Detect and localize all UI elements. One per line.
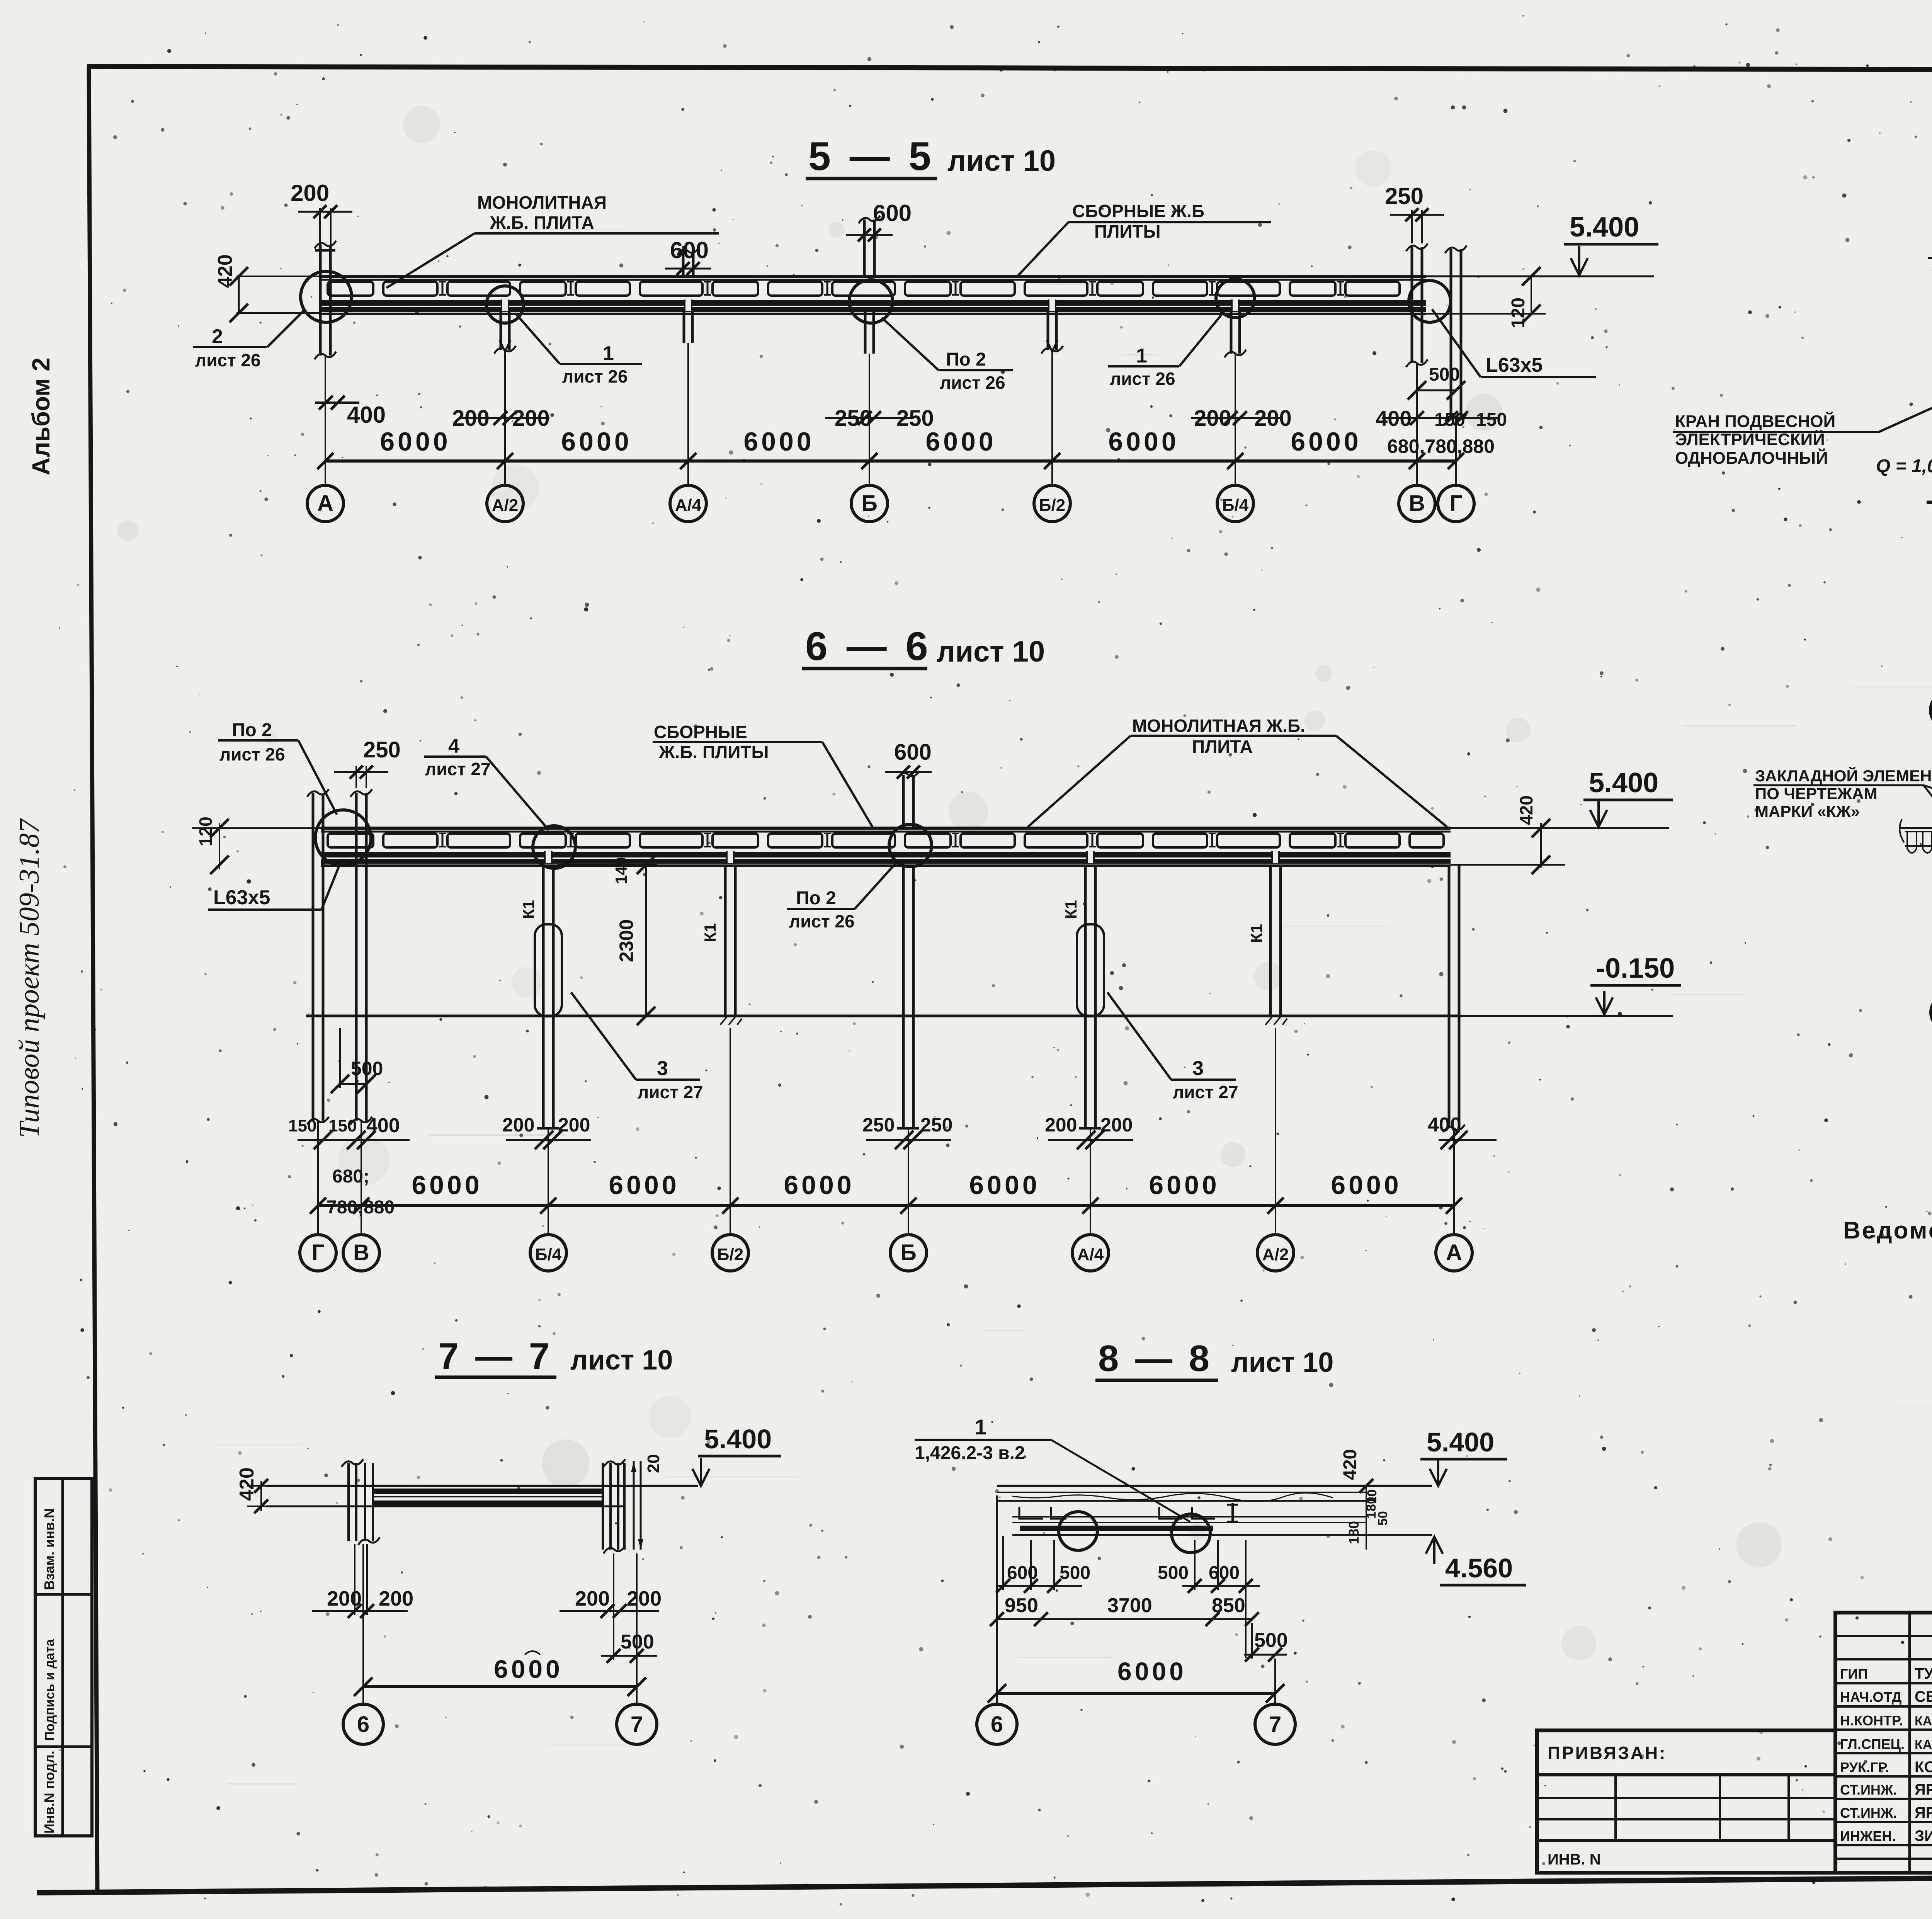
- svg-text:200: 200: [1045, 1114, 1077, 1136]
- section 6-6 column B/2 with base plate: [719, 865, 742, 1025]
- svg-text:6000: 6000: [380, 427, 451, 456]
- section 6-6 axis bubbles G V B/4 B/2 B A/4 A/2 A: [300, 1235, 1472, 1271]
- svg-text:лист 26: лист 26: [195, 350, 261, 370]
- svg-text:6000: 6000: [412, 1170, 482, 1200]
- section 5-5 lower dims 400 / 200 200 / 250 250 / 200 200 / 400 150 150: [315, 396, 1507, 431]
- svg-text:3: 3: [1192, 1057, 1204, 1080]
- section 6-6 leader Sbornye ZhB plity: [653, 722, 872, 827]
- svg-text:Взам. инв.N: Взам. инв.N: [41, 1508, 57, 1590]
- svg-text:СБОРНЫЕ Ж.Б: СБОРНЫЕ Ж.Б: [1072, 201, 1204, 221]
- svg-text:1: 1: [975, 1415, 986, 1439]
- svg-text:7: 7: [631, 1712, 643, 1737]
- section 5-5 hanger B/4: [1225, 312, 1246, 357]
- section 7-7 elevation 5.400: [692, 1424, 781, 1486]
- svg-text:150: 150: [288, 1116, 316, 1135]
- svg-text:СТ.ИНЖ.: СТ.ИНЖ.: [1840, 1782, 1897, 1798]
- svg-text:120: 120: [196, 817, 216, 846]
- svg-text:6000: 6000: [609, 1170, 679, 1200]
- section 8-8 dims 600 500 500 600: [996, 1536, 1260, 1658]
- svg-text:6000: 6000: [743, 427, 814, 456]
- section 6-6 callout 3 list 27 at B/4: [571, 992, 703, 1102]
- svg-text:8 — 8: 8 — 8: [1098, 1338, 1213, 1379]
- svg-text:1: 1: [603, 342, 614, 365]
- svg-text:КОРСУНСКИЙ: КОРСУНСКИЙ: [1915, 1758, 1932, 1776]
- svg-text:А: А: [317, 491, 333, 516]
- svg-text:180: 180: [1346, 1521, 1362, 1544]
- svg-text:200: 200: [327, 1587, 362, 1610]
- svg-text:НАЧ.ОТД: НАЧ.ОТД: [1840, 1689, 1901, 1705]
- svg-text:По 2: По 2: [796, 888, 836, 908]
- svg-text:ГИП: ГИП: [1840, 1666, 1868, 1682]
- svg-text:КАПИТУЛЬСКИЙ: КАПИТУЛЬСКИЙ: [1915, 1737, 1932, 1752]
- svg-text:3: 3: [657, 1057, 668, 1080]
- svg-text:Н.КОНТР.: Н.КОНТР.: [1840, 1713, 1903, 1728]
- section 5-5 leader Sbornye ZhB plity: [1017, 201, 1271, 276]
- svg-text:МОНОЛИТНАЯ Ж.Б.: МОНОЛИТНАЯ Ж.Б.: [1132, 716, 1305, 736]
- svg-text:6000: 6000: [1291, 427, 1361, 456]
- svg-text:6000: 6000: [1108, 427, 1179, 456]
- section 8-8 elevation 5.400: [1420, 1427, 1507, 1486]
- section 6-6 lower dims 150 150 400 / 200 200 / 250 250 / 200 200 / 400: [288, 1114, 1497, 1149]
- section 10-10 slab with ribs: [1900, 819, 1932, 853]
- section 8-8 title: [1095, 1338, 1333, 1380]
- svg-text:150: 150: [1476, 410, 1507, 430]
- svg-text:200: 200: [291, 180, 329, 206]
- svg-text:ИНВ. N: ИНВ. N: [1548, 1851, 1601, 1868]
- section 5-5 dim 500 between V and G: [1408, 364, 1465, 400]
- section 7-7 dim 500: [601, 1553, 657, 1663]
- section 6-6 dim 500: [331, 1028, 383, 1093]
- section 6-6 columns G and V: [307, 789, 372, 1125]
- svg-text:6000: 6000: [494, 1655, 563, 1683]
- section 5-5 callout 1 list 26 at A/2: [516, 314, 642, 386]
- section 8-8 hanger brackets: [1019, 1503, 1238, 1523]
- svg-text:По 2: По 2: [232, 720, 272, 740]
- svg-text:140: 140: [612, 857, 630, 884]
- svg-text:950: 950: [1005, 1594, 1038, 1617]
- section 7-7 dim 420 (rotated): [236, 1467, 268, 1513]
- section 5-5 column G: [1445, 245, 1467, 421]
- svg-text:6000: 6000: [784, 1170, 854, 1200]
- section 5-5 dim 120 right (rotated): [1426, 267, 1546, 328]
- svg-text:420: 420: [236, 1467, 258, 1501]
- svg-text:6000: 6000: [561, 427, 632, 456]
- section 5-5 title: [806, 134, 1056, 179]
- svg-text:420: 420: [1516, 795, 1536, 825]
- section 8-8 joint circles: [1059, 1512, 1210, 1553]
- svg-text:L63x5: L63x5: [213, 886, 270, 909]
- section 8-8 axis lines and bubbles 6 7: [977, 1495, 1295, 1744]
- svg-text:6000: 6000: [925, 427, 996, 456]
- svg-text:лист 27: лист 27: [425, 759, 491, 779]
- svg-text:250: 250: [1385, 183, 1423, 209]
- svg-text:МАРКИ «КЖ»: МАРКИ «КЖ»: [1755, 802, 1860, 820]
- svg-text:В: В: [353, 1240, 369, 1265]
- section 7-7 axis lines and bubbles 6 7: [343, 1544, 657, 1744]
- svg-text:А/4: А/4: [1077, 1245, 1104, 1264]
- svg-text:2: 2: [212, 325, 223, 348]
- svg-text:А/2: А/2: [1262, 1245, 1289, 1264]
- title block: privyazan table: [1537, 1730, 1835, 1873]
- svg-text:5 — 5: 5 — 5: [808, 134, 935, 179]
- section 6-6 callout 3 list 27 at A/4: [1107, 992, 1238, 1102]
- section 6-6 dim 250 above V: [334, 737, 401, 788]
- section 6-6 slab band with monorail beam: [192, 828, 1451, 866]
- section 6-6 elevation 5.400: [1451, 767, 1673, 828]
- svg-text:4.560: 4.560: [1445, 1553, 1513, 1583]
- svg-text:лист 26: лист 26: [1110, 369, 1175, 389]
- svg-text:ПЛИТЫ: ПЛИТЫ: [1094, 221, 1161, 242]
- svg-text:6000: 6000: [1149, 1170, 1219, 1200]
- section 5-5 dim 420 left (rotated): [214, 254, 321, 322]
- section 6-6 joint circles: [315, 810, 932, 868]
- section 5-5 post A/4 with 600 dim: [665, 237, 711, 343]
- section 5-5 axis bubbles A A/2 A/4 B B/2 B/4 V G: [307, 485, 1474, 522]
- svg-text:600: 600: [670, 237, 709, 263]
- svg-text:200: 200: [575, 1587, 610, 1610]
- section 5-5 hanger A/2: [494, 312, 516, 354]
- svg-text:500: 500: [1429, 364, 1460, 385]
- section 7-7 dims 200 200 left: [312, 1544, 413, 1618]
- section 8-8 monorail beam (dark): [1012, 1517, 1432, 1535]
- svg-text:СБОРНЫЕ: СБОРНЫЕ: [654, 722, 747, 742]
- svg-text:СТ.ИНЖ.: СТ.ИНЖ.: [1840, 1805, 1897, 1821]
- svg-text:Б/2: Б/2: [1039, 496, 1065, 515]
- svg-text:120: 120: [1508, 298, 1529, 328]
- svg-text:680,780,880: 680,780,880: [1387, 436, 1495, 457]
- section 9-9 left column axis 6: [1928, 253, 1932, 502]
- svg-text:ГЛ.СПЕЦ.: ГЛ.СПЕЦ.: [1840, 1736, 1905, 1752]
- svg-text:500: 500: [1060, 1563, 1090, 1583]
- svg-text:500: 500: [1158, 1563, 1189, 1583]
- svg-text:ОДНОБАЛОЧНЫЙ: ОДНОБАЛОЧНЫЙ: [1675, 448, 1828, 468]
- section 6-6 column A: [1443, 865, 1465, 1132]
- svg-text:лист 10: лист 10: [570, 1345, 673, 1376]
- svg-text:5.400: 5.400: [704, 1424, 772, 1454]
- section 6-6 axis lines to bubbles: [318, 1028, 1454, 1235]
- svg-text:ЯРЦЕВА: ЯРЦЕВА: [1915, 1804, 1932, 1821]
- section 5-5 callout angle L63x5: [1432, 309, 1596, 377]
- svg-text:Г: Г: [1450, 491, 1463, 516]
- svg-text:420: 420: [1340, 1449, 1361, 1480]
- section 6-6 main dimension row 6000 x6: [310, 1166, 1462, 1218]
- svg-text:КРАН ПОДВЕСНОЙ: КРАН ПОДВЕСНОЙ: [1675, 411, 1835, 431]
- section 5-5 joint detail circles: [301, 271, 1451, 323]
- svg-text:ПО ЧЕРТЕЖАМ: ПО ЧЕРТЕЖАМ: [1755, 784, 1877, 803]
- svg-text:КАПИТУЛЬСКИЙ: КАПИТУЛЬСКИЙ: [1915, 1713, 1932, 1728]
- section 9-9 crane label leader: [1673, 333, 1932, 476]
- section 8-8 dim 6000: [988, 1657, 1284, 1703]
- svg-text:ЗАКЛАДНОЙ ЭЛЕМЕНТ: ЗАКЛАДНОЙ ЭЛЕМЕНТ: [1755, 766, 1932, 785]
- svg-text:Б/2: Б/2: [717, 1245, 743, 1264]
- svg-text:К1: К1: [1247, 924, 1265, 943]
- caption Album 2 (rotated): [27, 357, 55, 475]
- svg-text:4: 4: [448, 735, 459, 757]
- section 6-6 leader Monolitnaya ZhB plita: [1028, 716, 1447, 827]
- section 5-5 post B with 600 dim: [846, 200, 912, 354]
- svg-text:РУК.ГР.: РУК.ГР.: [1840, 1759, 1889, 1775]
- section 6-6 column A/4 with pit: [1077, 865, 1104, 1128]
- svg-text:ЯРЦЕВА: ЯРЦЕВА: [1915, 1781, 1932, 1798]
- section 8-8 dim 500: [1244, 1623, 1288, 1662]
- svg-text:ЗИНЧЕНКО: ЗИНЧЕНКО: [1915, 1827, 1932, 1844]
- section 5-5 axis lines down to bubbles: [325, 343, 1456, 486]
- svg-text:200: 200: [1100, 1114, 1133, 1136]
- svg-text:ПРИВЯЗАН:: ПРИВЯЗАН:: [1548, 1743, 1667, 1763]
- svg-text:Б: Б: [861, 491, 878, 516]
- section 5-5 callout Po 2 list 26 at B: [882, 318, 1013, 393]
- section 5-5 leader Monolitnaya ZhB plita: [386, 192, 719, 288]
- svg-text:150: 150: [328, 1116, 357, 1135]
- svg-text:лист 26: лист 26: [940, 373, 1005, 393]
- caption Tipovoy proekt 509-31.87 (rotated script): [14, 818, 45, 1138]
- svg-text:К1: К1: [1062, 900, 1080, 919]
- section 7-7 dims 200 200 right: [560, 1587, 662, 1618]
- section 5-5 slab band with monorail beam: [321, 276, 1426, 314]
- svg-text:L63x5: L63x5: [1486, 354, 1543, 376]
- svg-text:Q = 1,0тс: Q = 1,0тс: [1876, 456, 1932, 476]
- svg-text:600: 600: [873, 200, 912, 226]
- section 7-7 title: [435, 1335, 673, 1377]
- section 6-6 dim 120 left (rotated): [196, 817, 229, 874]
- section 8-8 elevation 4.560: [1426, 1537, 1526, 1585]
- section 6-6 K1 labels (rotated): [519, 900, 1265, 943]
- svg-text:лист 27: лист 27: [1173, 1082, 1238, 1102]
- section 5-5 dim 250 above column V: [1385, 183, 1444, 243]
- section 5-5 dim 200 above column A: [291, 180, 352, 270]
- section 5-5 elevation 5.400: [1426, 212, 1658, 276]
- svg-text:20: 20: [644, 1454, 663, 1473]
- svg-text:200: 200: [379, 1587, 413, 1610]
- section 6-6 ground line: [306, 1015, 1461, 1017]
- svg-text:6000: 6000: [1117, 1657, 1187, 1686]
- section 5-5 column V: [1406, 243, 1428, 367]
- section 6-6 leader Po 2 list 26 mid: [787, 863, 896, 931]
- section 8-8 slab lines: [997, 1486, 1432, 1502]
- section 6-6 elevation -0.150: [1461, 953, 1681, 1016]
- svg-text:6000: 6000: [969, 1170, 1040, 1200]
- svg-text:Типовой проект 509-31.87: Типовой проект 509-31.87: [14, 818, 45, 1138]
- svg-text:А: А: [1446, 1240, 1462, 1265]
- svg-text:5.400: 5.400: [1589, 767, 1658, 798]
- svg-text:400: 400: [347, 402, 386, 428]
- section 6-6 dim 140 (rotated): [612, 857, 630, 884]
- svg-text:К1: К1: [519, 900, 537, 919]
- svg-text:250: 250: [862, 1114, 895, 1136]
- svg-text:6: 6: [357, 1712, 369, 1737]
- svg-text:ПЛИТА: ПЛИТА: [1192, 737, 1253, 757]
- svg-text:1,426.2-3 в.2: 1,426.2-3 в.2: [915, 1443, 1025, 1463]
- svg-text:600: 600: [894, 740, 932, 765]
- svg-text:-0.150: -0.150: [1596, 953, 1675, 984]
- svg-text:50: 50: [1376, 1511, 1390, 1526]
- svg-text:Б: Б: [900, 1240, 917, 1265]
- svg-text:200: 200: [558, 1114, 590, 1136]
- section 7-7 dim 6000: [354, 1651, 646, 1696]
- section 9-9 ground line: [1927, 501, 1932, 504]
- svg-text:500: 500: [351, 1058, 383, 1079]
- bottom-left stamp table: [35, 1478, 92, 1836]
- svg-text:Инв.N подл.: Инв.N подл.: [41, 1751, 57, 1834]
- svg-text:К1: К1: [701, 923, 719, 942]
- section 8-8 callout 1 / 1,426.2-3 v.2: [915, 1415, 1190, 1522]
- section 6-6 leader 4 list 27: [424, 735, 549, 830]
- svg-text:По 2: По 2: [946, 349, 986, 370]
- svg-text:ТУРИНСКИЙ: ТУРИНСКИЙ: [1915, 1664, 1932, 1682]
- svg-text:лист 26: лист 26: [789, 911, 855, 931]
- svg-text:лист 10: лист 10: [937, 635, 1045, 668]
- svg-text:7 — 7: 7 — 7: [438, 1335, 553, 1377]
- svg-text:2300: 2300: [616, 919, 637, 962]
- svg-text:лист 26: лист 26: [219, 744, 285, 764]
- svg-text:5.400: 5.400: [1427, 1427, 1494, 1457]
- svg-text:250: 250: [920, 1114, 952, 1136]
- svg-text:200: 200: [502, 1114, 534, 1136]
- svg-text:лист 10: лист 10: [947, 145, 1056, 177]
- svg-text:Б/4: Б/4: [535, 1245, 562, 1264]
- svg-text:5.400: 5.400: [1570, 212, 1639, 243]
- section 10-10 axis bubbles A/2 A/4: [1931, 977, 1932, 1030]
- svg-text:Альбом 2: Альбом 2: [27, 357, 55, 475]
- section 6-6 leader L63x5: [208, 864, 340, 910]
- section 7-7 slab and monorail beams: [266, 1486, 698, 1506]
- svg-text:Ведомость элементов смотрите: Ведомость элементов смотрите лист 10.: [1843, 1217, 1932, 1244]
- svg-text:А/4: А/4: [675, 496, 702, 515]
- section 7-7 dim 20 (rotated): [644, 1454, 663, 1473]
- svg-text:6: 6: [991, 1712, 1003, 1737]
- note Vedomost elementov smotrite list 10: [1843, 1217, 1932, 1244]
- section 5-5 column A: [315, 241, 336, 359]
- section 7-7 column axis 6: [342, 1459, 380, 1545]
- section 5-5 callout 1 list 26 at B/4: [1108, 311, 1224, 389]
- section 7-7 column axis 7: [603, 1459, 643, 1553]
- svg-text:6 — 6: 6 — 6: [805, 624, 932, 669]
- svg-text:Подпись и дата: Подпись и дата: [43, 1638, 57, 1741]
- section 6-6 column A/2 with base plate: [1264, 865, 1287, 1025]
- section 5-5 hanger B/2: [1041, 312, 1063, 354]
- section 6-6 top leader Po 2 list 26: [218, 720, 337, 815]
- svg-text:1: 1: [1136, 345, 1147, 367]
- section 6-6 title: [802, 624, 1045, 669]
- section 10-10 embedded element label: [1753, 766, 1932, 869]
- svg-text:МОНОЛИТНАЯ: МОНОЛИТНАЯ: [477, 192, 607, 213]
- svg-text:лист 26: лист 26: [562, 366, 628, 386]
- svg-text:6000: 6000: [1331, 1170, 1401, 1200]
- svg-text:В: В: [1409, 491, 1425, 516]
- svg-text:680;: 680;: [332, 1166, 369, 1187]
- title block: signatures table: [1835, 1613, 1932, 1873]
- svg-text:250: 250: [363, 737, 401, 762]
- section 8-8 right rotated dims 420 10 180 50 180: [1340, 1449, 1390, 1550]
- svg-text:лист 10: лист 10: [1231, 1347, 1333, 1378]
- section 5-5 callout 2 list 26: [193, 309, 305, 370]
- section 6-6 dim 420 right (rotated): [1451, 795, 1565, 874]
- section 6-6 column B with 600 dim: [885, 740, 932, 1128]
- svg-text:лист 27: лист 27: [638, 1082, 703, 1102]
- svg-text:Б/4: Б/4: [1222, 496, 1249, 515]
- svg-text:Ж.Б. ПЛИТА: Ж.Б. ПЛИТА: [490, 213, 594, 233]
- section 8-8 dims 950 3700 850: [990, 1594, 1259, 1626]
- svg-text:Ж.Б. ПЛИТЫ: Ж.Б. ПЛИТЫ: [658, 742, 769, 762]
- svg-text:ИНЖЕН.: ИНЖЕН.: [1840, 1828, 1896, 1844]
- section 9-9 axis lines and bubbles 6 7: [1930, 514, 1932, 728]
- section 6-6 column B/4 with pit: [535, 865, 562, 1128]
- svg-text:СВЕТЛИЧНЫЙ: СВЕТЛИЧНЫЙ: [1915, 1688, 1932, 1705]
- svg-text:200: 200: [627, 1587, 662, 1610]
- svg-text:А/2: А/2: [492, 496, 518, 515]
- svg-text:7: 7: [1269, 1712, 1281, 1737]
- svg-text:3700: 3700: [1107, 1594, 1152, 1617]
- section 5-5 main dimension row 6000 x6: [317, 427, 1495, 469]
- section 6-6 dim 2300 (rotated): [558, 856, 657, 1025]
- svg-text:600: 600: [1007, 1563, 1038, 1583]
- svg-text:Г: Г: [312, 1240, 325, 1265]
